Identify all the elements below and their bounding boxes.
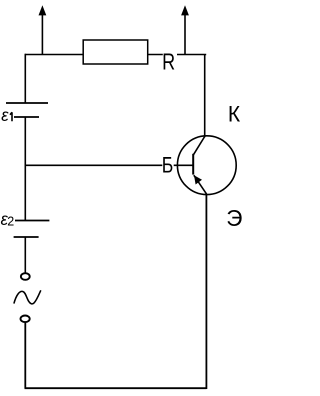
wire top horizontal left segment <box>25 54 83 56</box>
transistor emitter arrowhead (PNP, points to base) <box>194 175 202 184</box>
svg-text:Б: Б <box>162 154 174 178</box>
transistor collector lead inside <box>193 137 204 155</box>
AC source sine symbol <box>14 290 41 304</box>
wire emitter vertical <box>205 194 207 390</box>
svg-text:К: К <box>228 101 241 127</box>
battery E2 long plate <box>15 220 49 222</box>
wire from E2 to AC source top terminal <box>24 237 26 273</box>
wire base horizontal <box>25 164 193 166</box>
wire left vertical upper <box>24 54 26 103</box>
svg-text:R: R <box>162 49 175 75</box>
label epsilon-2 <box>1 209 15 229</box>
battery E2 short plate <box>14 236 39 238</box>
AC source top terminal circle <box>21 273 30 280</box>
label B (base) <box>162 154 174 178</box>
transistor base bar <box>192 154 194 175</box>
transistor VT1 circle <box>177 136 236 195</box>
label epsilon-1 <box>1 105 12 125</box>
AC source bottom terminal circle <box>21 316 30 323</box>
svg-text:2: 2 <box>7 215 14 229</box>
arrow up right (current direction) <box>181 5 189 54</box>
svg-text:ε: ε <box>1 105 9 125</box>
transistor emitter lead inside <box>194 175 207 194</box>
wire bottom horizontal <box>25 387 207 389</box>
arrow up left (current direction) <box>39 5 47 54</box>
wire top horizontal right segment <box>148 54 207 56</box>
battery E1 long plate <box>6 102 48 104</box>
wire collector vertical <box>204 55 206 138</box>
battery E1 short plate <box>14 116 39 118</box>
svg-text:Э: Э <box>226 205 242 231</box>
wire left vertical middle <box>24 117 26 221</box>
wire bottom left vertical <box>24 323 26 389</box>
label R <box>162 49 177 75</box>
resistor R (box) <box>83 40 148 64</box>
